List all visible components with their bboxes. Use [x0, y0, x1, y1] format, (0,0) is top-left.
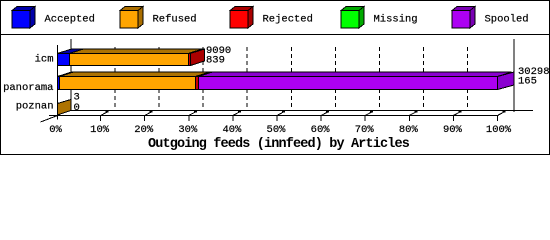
svg-text:20%: 20% [134, 124, 154, 136]
svg-text:80%: 80% [399, 124, 419, 136]
svg-text:0%: 0% [49, 124, 62, 136]
svg-text:0: 0 [74, 102, 80, 114]
svg-text:165: 165 [518, 76, 537, 88]
svg-text:839: 839 [206, 55, 225, 67]
svg-text:Accepted: Accepted [45, 14, 95, 26]
svg-text:90%: 90% [443, 124, 463, 136]
svg-text:100%: 100% [486, 124, 512, 136]
svg-text:Outgoing feeds (innfeed) by Ar: Outgoing feeds (innfeed) by Articles [148, 137, 410, 152]
svg-text:50%: 50% [267, 124, 287, 136]
svg-text:70%: 70% [355, 124, 375, 136]
svg-text:30%: 30% [178, 124, 198, 136]
svg-text:panorama: panorama [3, 82, 53, 94]
svg-text:10%: 10% [90, 124, 110, 136]
svg-text:Spooled: Spooled [485, 14, 529, 26]
svg-text:Rejected: Rejected [263, 14, 313, 26]
svg-text:poznan: poznan [16, 101, 54, 113]
svg-text:Missing: Missing [374, 14, 418, 26]
svg-text:icm: icm [35, 54, 54, 66]
svg-text:40%: 40% [222, 124, 242, 136]
svg-text:Refused: Refused [153, 14, 197, 26]
svg-text:60%: 60% [311, 124, 331, 136]
